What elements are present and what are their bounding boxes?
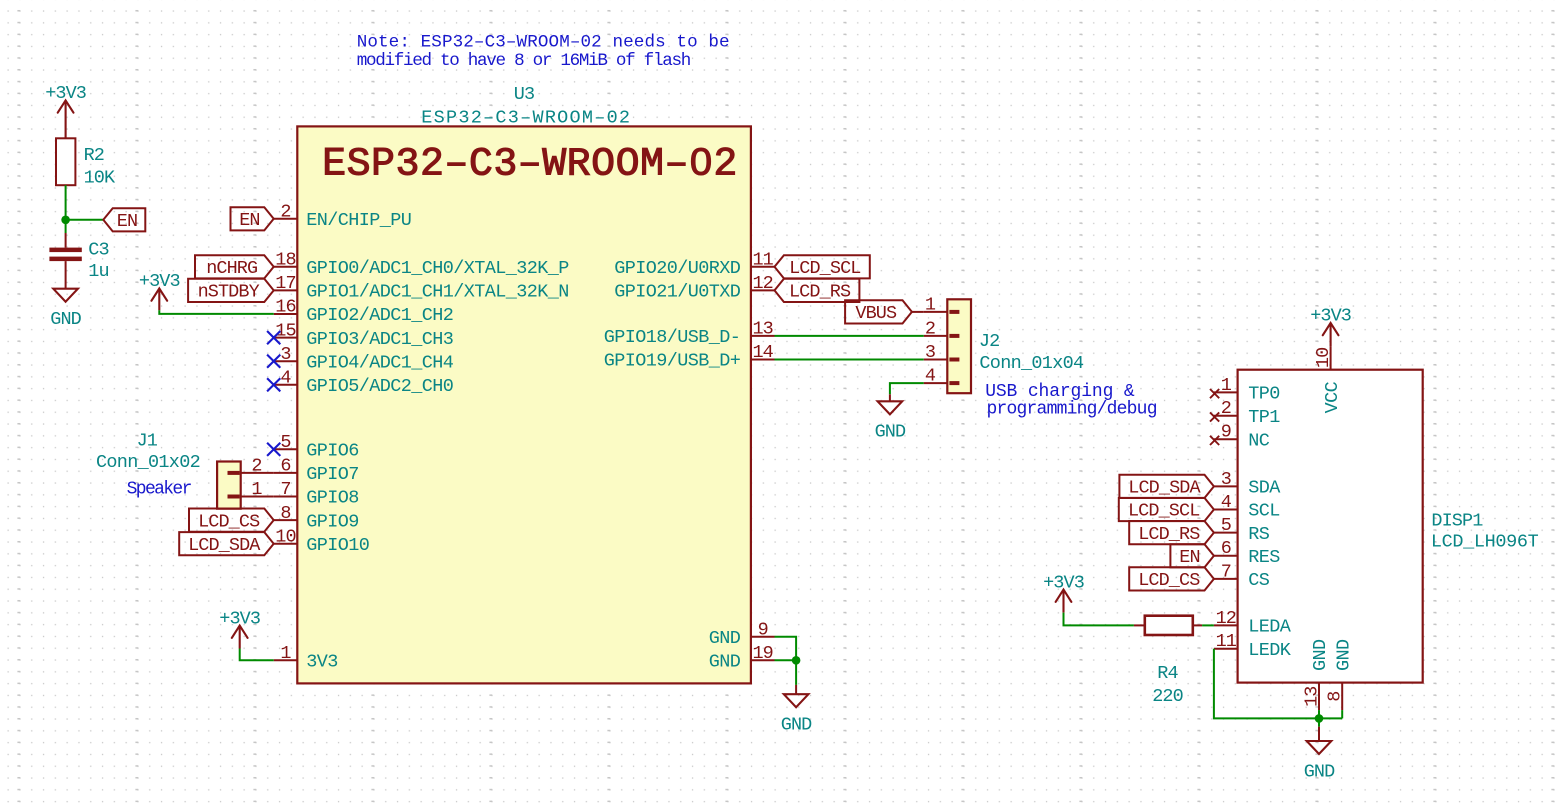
DISP1 pin 11 LEDK — [1214, 631, 1292, 661]
svg-text:1u: 1u — [88, 261, 108, 282]
svg-text:EN: EN — [117, 211, 137, 232]
power +3V3 (GPIO2) — [139, 271, 180, 310]
svg-text:2: 2 — [1221, 398, 1231, 419]
svg-text:3: 3 — [1221, 469, 1231, 490]
svg-text:4: 4 — [925, 366, 936, 387]
power +3V3 (3V3 pin) — [219, 608, 260, 648]
svg-text:GPIO6: GPIO6 — [306, 441, 359, 462]
svg-text:GND: GND — [1333, 639, 1354, 671]
wire +3V3 to 3V3 pin — [240, 649, 274, 661]
svg-text:4: 4 — [1221, 492, 1232, 513]
svg-text:1: 1 — [925, 294, 936, 315]
resistor R2 — [56, 138, 116, 188]
DISP1 pin 7 CS — [1214, 561, 1270, 591]
DISP1 pin 3 SDA — [1214, 469, 1281, 499]
wire junction down — [1318, 718, 1320, 726]
J1 pin 2 — [228, 456, 274, 477]
svg-text:J2: J2 — [979, 331, 999, 352]
J1 pin 1 — [228, 479, 274, 500]
svg-text:SDA: SDA — [1248, 478, 1281, 499]
svg-text:GPIO3/ADC1_CH3: GPIO3/ADC1_CH3 — [306, 329, 453, 350]
connector J1 body — [217, 462, 241, 509]
svg-text:U3: U3 — [514, 84, 534, 105]
global label nSTDBY (at U3 pin 17) — [188, 279, 274, 303]
svg-text:LCD_RS: LCD_RS — [1138, 524, 1200, 545]
svg-text:GPIO1/ADC1_CH1/XTAL_32K_N: GPIO1/ADC1_CH1/XTAL_32K_N — [306, 282, 569, 303]
svg-text:RS: RS — [1248, 524, 1270, 545]
global label EN (left) — [103, 208, 145, 232]
svg-text:GPIO4/ADC1_CH4: GPIO4/ADC1_CH4 — [306, 352, 454, 373]
U3 pin 4 GPIO5/ADC2_CH0 — [267, 368, 453, 398]
svg-text:nSTDBY: nSTDBY — [198, 282, 260, 303]
U3 pin 5 GPIO6 — [267, 432, 359, 462]
svg-text:GPIO5/ADC2_CH0: GPIO5/ADC2_CH0 — [306, 376, 453, 397]
wire LEDK to ground rail — [1214, 649, 1342, 719]
svg-text:+3V3: +3V3 — [219, 608, 260, 629]
ground (J2) — [875, 394, 906, 442]
wire +3V3 to R4 — [1064, 613, 1134, 626]
svg-text:GPIO8: GPIO8 — [306, 488, 359, 509]
global label LCD_RS (DISP1) — [1129, 521, 1214, 545]
svg-text:7: 7 — [1221, 561, 1231, 582]
svg-text:EN: EN — [239, 210, 259, 231]
wire +3V3 to pin 16 — [159, 310, 273, 314]
svg-text:LCD_LH096T: LCD_LH096T — [1431, 532, 1539, 553]
svg-text:2: 2 — [251, 456, 261, 477]
ground (U3) — [781, 685, 812, 736]
svg-text:programming/debug: programming/debug — [987, 399, 1157, 419]
junction at DISP1 ground — [1315, 714, 1324, 723]
svg-text:LCD_SCL: LCD_SCL — [1128, 501, 1199, 522]
power +3V3 (VCC) — [1310, 306, 1351, 346]
U3 pin 14 GPIO19/USB_D+ — [604, 342, 775, 372]
svg-text:VCC: VCC — [1322, 381, 1343, 413]
svg-text:GND: GND — [1310, 639, 1331, 671]
svg-text:GPIO18/USB_D-: GPIO18/USB_D- — [604, 327, 741, 348]
svg-text:GPIO9: GPIO9 — [306, 511, 359, 532]
svg-text:1: 1 — [280, 643, 291, 664]
U3 pin 3 GPIO4/ADC1_CH4 — [267, 344, 454, 374]
svg-text:DISP1: DISP1 — [1431, 510, 1483, 531]
svg-text:LCD_SCL: LCD_SCL — [789, 258, 860, 279]
svg-text:GPIO2/ADC1_CH2: GPIO2/ADC1_CH2 — [306, 305, 453, 326]
svg-text:11: 11 — [752, 250, 773, 271]
svg-text:14: 14 — [752, 342, 773, 363]
svg-text:17: 17 — [275, 273, 295, 294]
svg-text:3: 3 — [925, 342, 935, 363]
DISP1 pin 9 NC — [1210, 422, 1270, 452]
DISP1 labels — [1431, 510, 1539, 552]
svg-text:2: 2 — [925, 318, 935, 339]
display DISP1 body — [1238, 370, 1423, 683]
DISP1 pin 5 RS — [1214, 515, 1270, 545]
svg-text:+3V3: +3V3 — [1310, 306, 1351, 327]
U3 pin 9 GND — [709, 619, 775, 649]
DISP1 pin 10 VCC — [1313, 346, 1343, 413]
global label VBUS — [845, 300, 912, 324]
svg-text:9: 9 — [1221, 422, 1231, 443]
svg-text:EN/CHIP_PU: EN/CHIP_PU — [306, 210, 411, 231]
U3 pin 16 GPIO2/ADC1_CH2 — [274, 297, 454, 327]
J2 pin 1 — [924, 294, 960, 315]
svg-text:SCL: SCL — [1248, 501, 1280, 522]
J2 labels — [979, 331, 1157, 420]
U3 pin 19 GND — [709, 643, 775, 673]
wire pin13 to rail — [1318, 710, 1320, 718]
svg-text:12: 12 — [1216, 608, 1236, 629]
svg-text:+3V3: +3V3 — [139, 271, 180, 292]
svg-text:VBUS: VBUS — [855, 303, 897, 324]
U3 pin 13 GPIO18/USB_D- — [604, 319, 775, 349]
svg-text:TP0: TP0 — [1248, 384, 1280, 405]
U3 pin 1 3V3 — [274, 643, 338, 673]
svg-text:RES: RES — [1248, 547, 1280, 568]
connector J2 body — [947, 299, 971, 393]
svg-text:GPIO20/U0RXD: GPIO20/U0RXD — [614, 258, 741, 279]
capacitor C3 — [49, 233, 108, 289]
U3 pin 11 GPIO20/U0RXD — [614, 250, 774, 280]
svg-text:GND: GND — [781, 715, 812, 736]
global label LCD_SCL (DISP1) — [1119, 498, 1214, 522]
svg-text:LCD_SDA: LCD_SDA — [188, 535, 261, 556]
svg-text:10: 10 — [275, 526, 295, 547]
svg-text:Conn_01x04: Conn_01x04 — [979, 353, 1084, 374]
U3 pin 10 GPIO10 — [274, 526, 370, 556]
DISP1 pin 13 GND — [1302, 639, 1332, 710]
J2 pin 3 — [924, 342, 960, 363]
svg-text:LCD_CS: LCD_CS — [198, 511, 260, 532]
wire U3 pin14 to J2 pin3 — [775, 359, 924, 361]
U3 pin 15 GPIO3/ADC1_CH3 — [267, 320, 453, 350]
svg-text:Speaker: Speaker — [127, 479, 192, 499]
svg-text:NC: NC — [1248, 430, 1270, 451]
svg-text:5: 5 — [280, 432, 290, 453]
svg-text:6: 6 — [280, 456, 290, 477]
zero dot mask — [697, 155, 706, 166]
svg-text:GND: GND — [1304, 761, 1335, 782]
svg-text:15: 15 — [275, 320, 295, 341]
global label LCD_CS (DISP1) — [1129, 567, 1214, 591]
svg-text:LCD_RS: LCD_RS — [789, 282, 851, 303]
wire VBUS to J2 pin 1 — [912, 311, 924, 313]
svg-text:C3: C3 — [88, 240, 108, 261]
note text — [357, 33, 730, 71]
DISP1 pin 6 RES — [1214, 538, 1280, 568]
wire pin8 to rail — [1341, 710, 1343, 718]
svg-text:13: 13 — [752, 319, 772, 340]
svg-text:GPIO10: GPIO10 — [306, 535, 369, 556]
svg-text:3: 3 — [280, 344, 290, 365]
DISP1 pin 1 TP0 — [1210, 375, 1280, 405]
global label LCD_RS (at U3 pin 12) — [775, 279, 860, 303]
U3 pin 17 GPIO1/ADC1_CH1/XTAL_32K_N — [274, 273, 569, 303]
global label LCD_CS (at U3 pin 8) — [189, 509, 274, 533]
svg-text:GPIO7: GPIO7 — [306, 464, 359, 485]
svg-text:220: 220 — [1152, 686, 1183, 707]
power +3V3 (R4) — [1043, 572, 1084, 612]
junction at U3 GND — [792, 656, 801, 665]
J2 pin 2 — [924, 318, 960, 339]
ground (DISP1) — [1304, 727, 1335, 783]
U3 pin 2 EN/CHIP_PU — [274, 202, 412, 232]
wire junction to EN label — [66, 219, 104, 221]
svg-text:nCHRG: nCHRG — [206, 258, 257, 279]
svg-text:3V3: 3V3 — [306, 652, 338, 673]
svg-text:9: 9 — [758, 619, 768, 640]
svg-text:11: 11 — [1216, 631, 1237, 652]
wire R2 to junction — [65, 185, 67, 220]
DISP1 pin 4 SCL — [1214, 492, 1280, 522]
wire junction to C3 — [65, 220, 67, 233]
svg-text:13: 13 — [1302, 686, 1323, 706]
U3 pin 6 GPIO7 — [274, 456, 359, 486]
svg-text:+3V3: +3V3 — [45, 83, 86, 104]
svg-text:12: 12 — [752, 273, 772, 294]
svg-text:GPIO19/USB_D+: GPIO19/USB_D+ — [604, 351, 741, 372]
svg-text:10: 10 — [1313, 348, 1334, 368]
svg-text:1: 1 — [251, 479, 262, 500]
U3 pin 7 GPIO8 — [274, 479, 359, 509]
svg-text:ESP32–C3–WROOM–02: ESP32–C3–WROOM–02 — [322, 142, 738, 187]
wire U3 pin13 to J2 pin2 — [775, 335, 924, 337]
global label LCD_SDA (at U3 pin 10) — [179, 532, 274, 556]
junction at R2/C3/EN — [61, 216, 70, 225]
U3 pin 12 GPIO21/U0TXD — [614, 273, 774, 303]
svg-text:TP1: TP1 — [1248, 407, 1280, 428]
svg-text:Note: ESP32–C3–WROOM–02 needs: Note: ESP32–C3–WROOM–02 needs to be — [357, 33, 730, 53]
global label EN (DISP1) — [1170, 544, 1214, 568]
svg-text:GND: GND — [875, 422, 906, 443]
DISP1 pin 8 GND — [1325, 639, 1355, 710]
svg-text:10K: 10K — [84, 167, 116, 188]
svg-text:2: 2 — [280, 202, 290, 223]
connector J1 labels — [96, 431, 200, 500]
svg-text:R4: R4 — [1157, 663, 1178, 684]
svg-text:GND: GND — [709, 628, 741, 649]
svg-text:EN: EN — [1179, 547, 1199, 568]
svg-text:GND: GND — [709, 652, 741, 673]
svg-text:8: 8 — [1325, 692, 1346, 702]
global label LCD_SCL (at U3 pin 11) — [775, 255, 870, 279]
svg-text:5: 5 — [1221, 515, 1231, 536]
ground (C3) — [50, 289, 81, 330]
wire J2 pin4 to GND — [890, 383, 924, 394]
wire R4 to DISP1 LEDA — [1202, 624, 1214, 626]
svg-text:+3V3: +3V3 — [1043, 572, 1084, 593]
svg-text:4: 4 — [280, 368, 291, 389]
global label nCHRG (at U3 pin 18) — [195, 255, 274, 279]
IC U3 ESP32-C3-WROOM-02 body — [297, 126, 751, 683]
svg-text:1: 1 — [1221, 375, 1232, 396]
svg-text:19: 19 — [752, 643, 772, 664]
svg-text:GPIO21/U0TXD: GPIO21/U0TXD — [614, 282, 741, 303]
svg-text:8: 8 — [280, 503, 290, 524]
svg-text:modified to have 8 or 16MiB of: modified to have 8 or 16MiB of flash — [357, 51, 691, 71]
svg-text:16: 16 — [275, 297, 295, 318]
U3 pin 8 GPIO9 — [274, 503, 359, 533]
wire U3 GND pins to ground — [775, 637, 797, 685]
svg-text:LCD_SDA: LCD_SDA — [1128, 478, 1201, 499]
svg-text:6: 6 — [1221, 538, 1231, 559]
resistor R4 — [1134, 616, 1202, 707]
DISP1 pin 12 LEDA — [1214, 608, 1292, 638]
global label EN (at U3 pin 2) — [231, 207, 274, 231]
J2 pin 4 — [924, 366, 960, 387]
svg-text:Conn_01x02: Conn_01x02 — [96, 452, 200, 473]
svg-text:7: 7 — [280, 479, 290, 500]
DISP1 pin 2 TP1 — [1210, 398, 1280, 428]
svg-text:GND: GND — [50, 309, 81, 330]
svg-text:LEDK: LEDK — [1248, 640, 1292, 661]
svg-text:CS: CS — [1248, 570, 1270, 591]
global label LCD_SDA (DISP1) — [1119, 475, 1214, 499]
svg-text:18: 18 — [275, 250, 295, 271]
svg-text:R2: R2 — [84, 145, 104, 166]
power +3V3 (R2) — [45, 83, 86, 138]
svg-text:LCD_CS: LCD_CS — [1138, 570, 1200, 591]
U3 pin 18 GPIO0/ADC1_CH0/XTAL_32K_P — [274, 250, 570, 280]
svg-text:GPIO0/ADC1_CH0/XTAL_32K_P: GPIO0/ADC1_CH0/XTAL_32K_P — [306, 258, 569, 279]
svg-text:J1: J1 — [137, 431, 158, 452]
svg-text:LEDA: LEDA — [1248, 617, 1292, 638]
